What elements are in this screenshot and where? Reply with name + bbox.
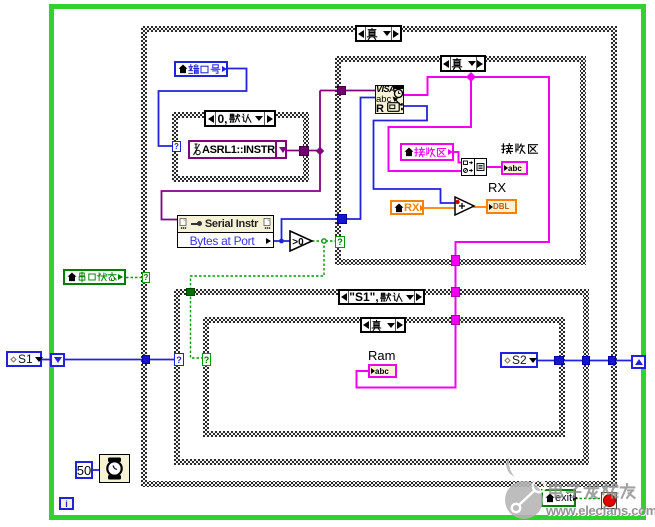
svg-text:>0: >0 [292,237,304,248]
